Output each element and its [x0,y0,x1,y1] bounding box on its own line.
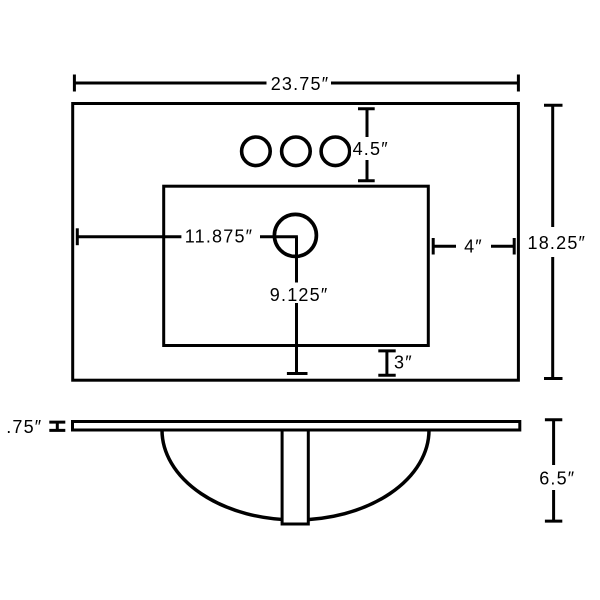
bowl (side view) [162,430,429,520]
svg-text:3″: 3″ [394,353,413,373]
right height dimension line 18.25 [544,105,563,378]
faucet hole center [282,137,311,166]
6.5 height dimension [545,420,562,521]
11.875 horizontal dimension [77,228,298,245]
svg-text:.75″: .75″ [6,417,42,437]
top width dimension line 23.75 [74,75,518,92]
svg-text:23.75″: 23.75″ [271,74,330,94]
label 4.5" [351,138,390,160]
svg-text:11.875″: 11.875″ [185,227,254,247]
label 9.125" [268,284,330,303]
side view slab [73,422,520,431]
outer rectangle (countertop, top view) [73,104,519,381]
.75 thickness dimension [49,422,65,430]
inner rectangle (sink bowl cutout, top view) [164,186,429,345]
drain circle [274,214,316,256]
svg-text:6.5″: 6.5″ [539,468,575,488]
9.125 vertical dimension [287,237,308,374]
faucet hole left [242,137,271,166]
faucet hole right [321,137,350,166]
3 vertical dimension [378,351,395,375]
svg-text:4″: 4″ [464,237,483,257]
svg-text:4.5″: 4.5″ [353,139,389,159]
4.5 vertical dimension [358,109,375,181]
svg-text:9.125″: 9.125″ [270,285,329,305]
4 horizontal dimension [433,238,514,255]
drain pipe (side view) [282,430,308,524]
svg-text:18.25″: 18.25″ [527,233,586,253]
